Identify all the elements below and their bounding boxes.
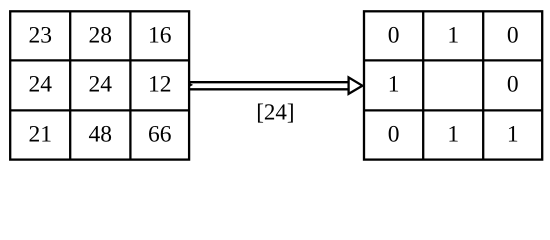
svg-text:1: 1 — [447, 121, 459, 147]
svg-text:23: 23 — [28, 23, 52, 49]
svg-text:0: 0 — [507, 72, 519, 98]
svg-text:1: 1 — [447, 23, 459, 49]
svg-text:0: 0 — [507, 23, 519, 49]
svg-text:[24]: [24] — [256, 100, 294, 125]
svg-text:1: 1 — [507, 121, 519, 147]
svg-text:48: 48 — [89, 121, 113, 147]
svg-text:0: 0 — [388, 121, 400, 147]
svg-text:0: 0 — [388, 23, 400, 49]
svg-text:24: 24 — [28, 72, 52, 98]
svg-text:28: 28 — [89, 23, 113, 49]
svg-text:21: 21 — [28, 121, 52, 147]
svg-text:12: 12 — [148, 72, 172, 98]
svg-text:1: 1 — [388, 72, 400, 98]
svg-text:24: 24 — [89, 72, 113, 98]
svg-text:16: 16 — [148, 23, 172, 49]
svg-text:66: 66 — [148, 121, 172, 147]
